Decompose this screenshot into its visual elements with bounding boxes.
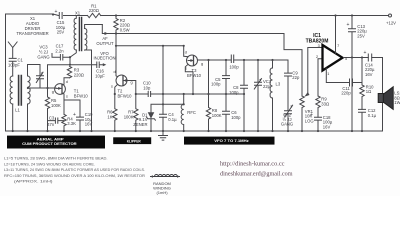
node dot gate wire at L2 [27, 87, 29, 89]
node dot T2 source R6 [114, 93, 116, 95]
capacitor C15 electrolytic [59, 13, 62, 19]
svg-text:X1: X1 [75, 11, 81, 16]
node dot R8 at W2 [207, 93, 209, 95]
node RFC ground [183, 130, 185, 132]
node R6 ground [114, 130, 116, 132]
svg-text:25V: 25V [57, 30, 65, 35]
node ground symbol junction [162, 130, 164, 132]
label R2 [120, 18, 130, 33]
svg-text:22p: 22p [263, 84, 271, 89]
node dot bus at L3 [271, 59, 273, 61]
wire VFO supply rail [116, 45, 184, 47]
resistor R4 [62, 114, 66, 131]
node C8 ground [243, 130, 245, 132]
svg-text:LOG: LOG [305, 118, 314, 123]
svg-text:OUTPUT: OUTPUT [96, 41, 114, 46]
svg-text:2.2n: 2.2n [55, 48, 64, 53]
transistor T3 BFW10 [187, 55, 198, 66]
node L3 ground [271, 130, 273, 132]
wire T2 source to R6 [115, 84, 118, 94]
svg-text:C3: C3 [49, 115, 55, 120]
core X1 [79, 18, 81, 51]
svg-text:+: + [310, 112, 313, 118]
svg-text:INJECTION: INJECTION [93, 56, 115, 61]
label D1 [133, 112, 148, 127]
capacitor C10 [148, 92, 150, 97]
label X1 audio driver transformer annotation [16, 16, 48, 36]
terminal +12V [389, 14, 392, 17]
svg-text:100K: 100K [212, 113, 222, 118]
label bar VFO 7 TO 7.1MHz [184, 137, 275, 145]
node dot R3 top wire [69, 64, 71, 66]
label bar AERIAL AMP CUM PRODUCT DETECTOR [7, 136, 105, 149]
svg-text:47n: 47n [47, 122, 55, 127]
svg-text:100K: 100K [51, 103, 61, 108]
svg-text:g: g [130, 81, 132, 85]
wire T3 source [185, 64, 193, 94]
node dot C13 rail [351, 14, 353, 16]
svg-text:100K: 100K [124, 114, 134, 119]
node dot VFO rail at T2 drain line [115, 45, 117, 47]
svg-text:7: 7 [337, 44, 339, 48]
svg-text:GANG: GANG [281, 121, 293, 126]
transformer X1 primary [74, 16, 76, 51]
node dot W2 at clipper branch [162, 93, 164, 95]
resistor R2 [114, 16, 118, 34]
transistor T2 BFW10 [116, 75, 127, 86]
node C18 ground [317, 130, 319, 132]
resistor R7 [134, 94, 138, 131]
arrow AF output [105, 32, 109, 35]
capacitor C19 electrolytic [77, 117, 84, 131]
arrow VR1 wiper [304, 92, 309, 97]
trimmer VC1 [254, 60, 261, 131]
capacitor C18 electrolytic [315, 117, 322, 131]
svg-text:+12V: +12V [386, 20, 396, 25]
svg-text:RFC=150 TRUNS, 36SWG WOUND OVE: RFC=150 TRUNS, 36SWG WOUND OVER A 100 KI… [4, 173, 145, 178]
ground symbol [159, 131, 168, 140]
node VC1 ground [257, 130, 259, 132]
wire T3 drain from VFO rail [184, 46, 188, 57]
capacitor C12 [359, 109, 366, 131]
node L1 ground [12, 130, 14, 132]
node VR1 ground [301, 130, 303, 132]
wire tank top to product detector [48, 65, 97, 88]
node dot pin7 rail [334, 14, 336, 16]
svg-text:+: + [364, 50, 367, 56]
node dot bus at C5 [225, 59, 227, 61]
capacitor C3 [48, 118, 65, 123]
wire L2 top loop to VC3 [28, 65, 41, 132]
wire T1 source branch to C19 [64, 100, 80, 117]
wire R3 to T1 drain [64, 78, 70, 84]
label LS1 [394, 91, 400, 106]
node dot RFC top W2 [183, 93, 185, 95]
potentiometer VR1 [300, 96, 304, 131]
node dot zener wire [162, 103, 164, 105]
svg-text:3: 3 [318, 44, 320, 48]
wire X1 primary bottom to node [70, 50, 76, 57]
svg-text:0.1µ: 0.1µ [368, 113, 377, 118]
node dot C5 C6 junction [225, 93, 227, 95]
svg-text:d: d [113, 70, 115, 74]
resistor R3 [67, 66, 71, 78]
wire IC1 output [344, 58, 383, 132]
svg-text:1K: 1K [107, 114, 112, 119]
resistor R6 [113, 94, 117, 131]
svg-text:BFW10: BFW10 [74, 94, 89, 99]
svg-text:1W: 1W [394, 100, 400, 105]
wire clipper branch vertical [162, 46, 164, 131]
capacitor C7 series 100p [231, 55, 233, 63]
label VC3 [37, 45, 49, 60]
wire zener stub [151, 104, 184, 112]
svg-text:16V: 16V [85, 122, 93, 127]
label C15 [55, 9, 66, 35]
node R7 ground [135, 130, 137, 132]
wire X1 secondary top to AF line [85, 25, 103, 29]
wire T3 gate to bus [198, 59, 289, 61]
wire ground bottom rail [6, 130, 383, 132]
svg-text:220Ω: 220Ω [89, 8, 99, 13]
svg-text:g: g [201, 62, 203, 66]
wire +12V rail C15 to R1 [64, 15, 88, 17]
svg-text:2: 2 [316, 55, 318, 59]
resistor R10 [360, 58, 364, 110]
speaker LS1 [378, 94, 383, 103]
svg-text:d: d [185, 50, 187, 54]
node dot AF line at R2 [115, 32, 117, 34]
node C19 ground [79, 130, 81, 132]
node dot T3 drain corner [183, 45, 185, 47]
svg-text:VFO 7 TO 7.1MHz: VFO 7 TO 7.1MHz [214, 138, 249, 143]
svg-text:RFC: RFC [187, 110, 196, 115]
wire X1 secondary bottom to ground [85, 50, 92, 131]
svg-text:100p: 100p [231, 115, 241, 120]
svg-text:d: d [66, 80, 68, 84]
wire AF output line [102, 25, 302, 97]
capacitor C5 [223, 60, 230, 94]
wire W2 clipper bus [136, 93, 244, 95]
arrow VFO injection [103, 63, 107, 66]
svg-text:L1=5 TURNS, 28 SWG, 8MM DIA WI: L1=5 TURNS, 28 SWG, 8MM DIA WITH FERRITE… [4, 155, 107, 160]
node dot bus at VC1 [257, 59, 259, 61]
capacitor C6 [223, 94, 230, 131]
svg-text:100p: 100p [211, 82, 221, 87]
svg-text:KLIPPER: KLIPPER [127, 139, 141, 143]
svg-text:L3: L3 [276, 82, 281, 87]
node C13 ground [351, 130, 353, 132]
coil winding notes [4, 155, 145, 183]
capacitor C11 [350, 79, 363, 86]
wire pin3 to VR1 wiper [308, 48, 323, 93]
core of aerial transformer [19, 76, 22, 106]
wire pin2 to R9 [318, 59, 323, 96]
label C19 [73, 112, 93, 127]
svg-text:L3=11 TURNS, 24 SWG ON 8MM PLA: L3=11 TURNS, 24 SWG ON 8MM PLASTIC FORME… [4, 167, 145, 172]
svg-text:s: s [185, 66, 187, 70]
wire T1 gate tank wire [28, 87, 56, 89]
svg-text:L2=18 TURNS, 24 SWG WOUND ON A: L2=18 TURNS, 24 SWG WOUND ON ABOVE CORE. [4, 161, 95, 166]
node dot bus at C8 [243, 59, 245, 61]
svg-text:(1mH): (1mH) [156, 190, 168, 195]
node C6 ground [225, 130, 227, 132]
label bar KLIPPER [113, 137, 151, 144]
svg-text:1Ω: 1Ω [366, 89, 371, 94]
node dot VFO rail at clipper branch [162, 45, 164, 47]
node dot T3 source W2 [192, 93, 194, 95]
svg-text:0.1µ: 0.1µ [168, 117, 177, 122]
svg-text:220Ω: 220Ω [74, 72, 84, 77]
svg-text:16V: 16V [323, 124, 331, 129]
capacitor C1 [9, 58, 16, 76]
svg-text:0.5W: 0.5W [120, 27, 130, 32]
node R8 ground [207, 130, 209, 132]
resistor R9 [316, 96, 320, 117]
svg-text:25V: 25V [357, 33, 365, 38]
inductor L1 primary winding [10, 76, 13, 104]
svg-text:g: g [52, 90, 54, 94]
wire +12V top rail left segment [6, 14, 59, 131]
inductor L3 [270, 60, 272, 131]
svg-text:10p: 10p [143, 86, 151, 91]
wire T2 gate to R7 [127, 81, 136, 95]
svg-text:s: s [111, 85, 113, 89]
node X1 secondary ground [90, 130, 92, 132]
node dot RFC at zener wire [183, 103, 185, 105]
node dot R10 bottom rail [361, 130, 363, 132]
capacitor C9 [285, 60, 292, 131]
wire T2 drain line [116, 34, 118, 77]
node junction at C15 left [52, 13, 54, 15]
svg-text:TRANSFORMER: TRANSFORMER [16, 31, 48, 36]
gang capacitor VC2 [285, 105, 293, 117]
wire +12V rail R1 to terminal [101, 15, 389, 17]
label C18 [310, 112, 333, 129]
transformer X1 secondary [85, 28, 87, 50]
capacitor C13 electrolytic [349, 16, 356, 132]
variable capacitor VC3 gang section [36, 65, 43, 89]
node dot T2 gate R7 [135, 93, 137, 95]
inductor L2 secondary winding [28, 76, 31, 104]
wire L1 bottom to rail [12, 104, 14, 131]
node dot C8 at W2 [243, 93, 245, 95]
svg-text:ZENER: ZENER [133, 122, 147, 127]
node dot gate R8 [207, 59, 209, 61]
svg-text:22p: 22p [292, 75, 300, 80]
capacitor C8 [241, 60, 248, 131]
svg-text:220p: 220p [341, 91, 351, 96]
label C14 [364, 50, 375, 77]
label C13 [347, 22, 368, 38]
svg-text:s: s [66, 95, 68, 99]
label VC2 [281, 112, 293, 126]
svg-text:L1: L1 [15, 107, 20, 112]
wire pin1 stub to C11 [326, 68, 349, 82]
node L2 ground [26, 130, 28, 132]
svg-text:100pF: 100pF [8, 62, 20, 67]
svg-text:dineshkumar.erd@gmail.com: dineshkumar.erd@gmail.com [220, 170, 293, 177]
node R4 ground [63, 130, 65, 132]
node dot output R10 [361, 56, 363, 58]
node VC2 ground [287, 130, 289, 132]
svg-text:100p: 100p [229, 90, 239, 95]
capacitor C14 electrolytic [368, 54, 371, 61]
resistor R1 [88, 13, 101, 17]
svg-text:+: + [347, 22, 350, 28]
resistor R5 [45, 88, 49, 131]
capacitor C4 [160, 114, 167, 117]
svg-text:100p: 100p [229, 65, 239, 70]
random winding figure [150, 174, 180, 177]
node dot R2 top [115, 14, 117, 16]
svg-text:BFW10: BFW10 [118, 93, 133, 98]
node dot C17 X1 node [69, 56, 71, 58]
svg-text:3.3K: 3.3K [67, 121, 76, 126]
svg-text:CUM PRODUCT DETECTOR: CUM PRODUCT DETECTOR [22, 141, 77, 146]
svg-text:33Ω: 33Ω [321, 101, 329, 106]
resistor R8 [206, 60, 210, 131]
op-amp IC1 TBA820M [323, 45, 343, 71]
wire pin7 supply [335, 16, 337, 54]
antenna [8, 42, 17, 58]
diode D1 zener [148, 112, 155, 118]
node D1 ground [150, 130, 152, 132]
svg-text:10µF: 10µF [95, 73, 105, 78]
capacitor C17 [52, 54, 70, 65]
svg-text:1: 1 [327, 72, 329, 76]
transistor T1 BFW10 [55, 84, 66, 95]
node dot gate wire at R5 branch [46, 87, 48, 89]
node dot output at C13 crossing [351, 56, 353, 58]
svg-text:5: 5 [345, 57, 347, 61]
svg-text:16V: 16V [365, 72, 373, 77]
svg-text:(APPROX. 1mH): (APPROX. 1mH) [14, 179, 53, 184]
svg-text:http://dinesh-kumar.co.cc: http://dinesh-kumar.co.cc [220, 161, 285, 168]
svg-text:BFW10: BFW10 [187, 73, 202, 78]
svg-text:+: + [73, 112, 76, 118]
svg-text:GANG: GANG [37, 55, 49, 60]
inductor RFC [181, 94, 184, 131]
node R5 ground [46, 130, 48, 132]
label VR1 [305, 109, 314, 124]
capacitor C16 vfo injection [97, 62, 104, 68]
svg-text:+: + [55, 9, 58, 15]
